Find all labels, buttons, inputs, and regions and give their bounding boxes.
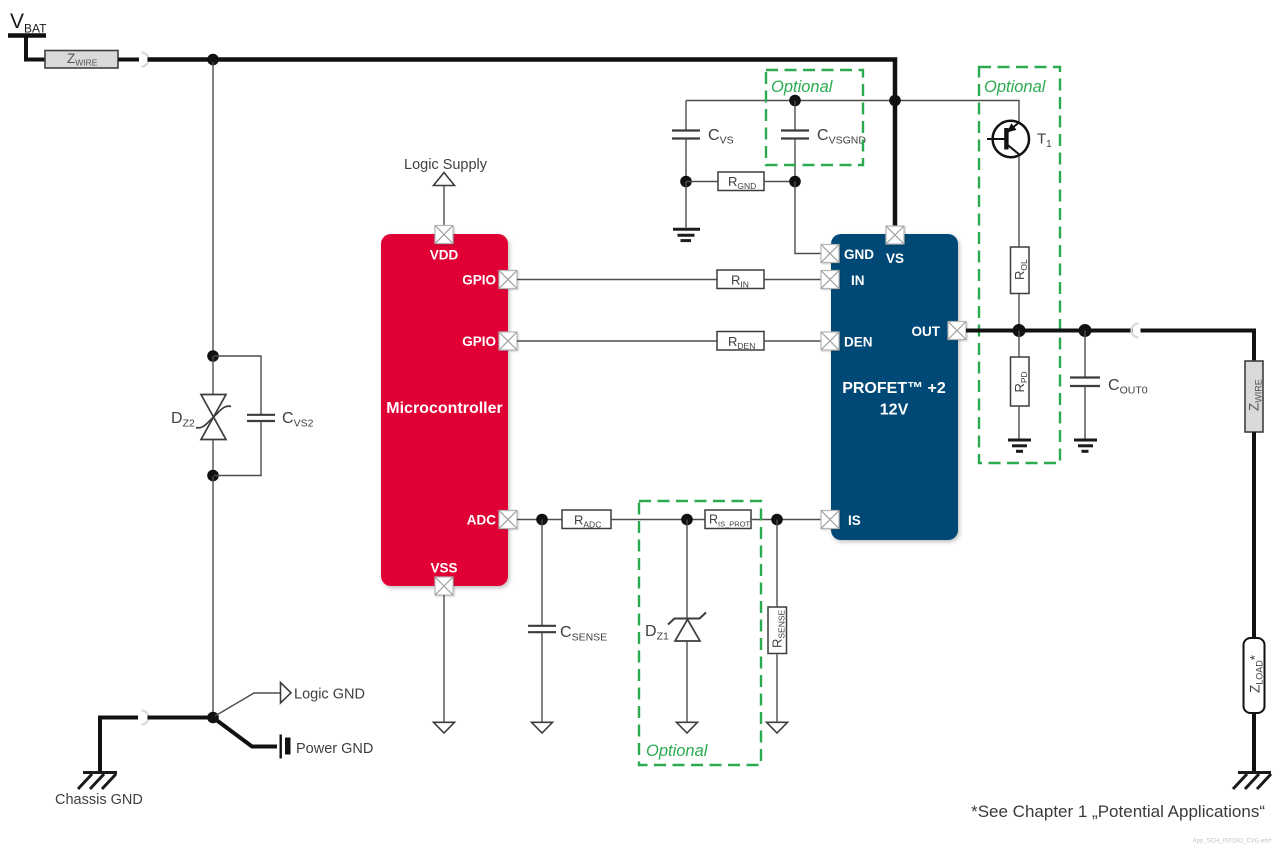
resistor RGND (718, 172, 764, 191)
wire RIS_PROT to IS pin (751, 519, 821, 521)
svg-text:Power GND: Power GND (296, 741, 373, 757)
wire ZWIRE to connector break (118, 58, 139, 62)
wire ZLOAD to chassis ground (1252, 713, 1256, 773)
earth ground COUT0 (1074, 440, 1097, 451)
wire logic supply to VDD (443, 186, 445, 228)
resistor RDEN (717, 332, 764, 352)
wire break to ground junction (148, 716, 211, 720)
wire junction to RSENSE (776, 520, 778, 608)
wire T1 collector to ROL (1018, 156, 1020, 247)
wire VBAT to ZWIRE (26, 36, 46, 60)
junction supply rail / DZ2 branch (207, 54, 219, 66)
svg-text:12V: 12V (880, 402, 909, 419)
resistor RPD (1011, 357, 1030, 406)
pin ADC (499, 511, 517, 529)
wire junction to CSENSE (541, 520, 543, 626)
pin OUT (948, 322, 966, 340)
wire junction to DZ1 (686, 520, 688, 619)
wire CVS to junction (685, 139, 687, 183)
capacitor CSENSE (528, 626, 556, 632)
svg-text:ADC: ADC (467, 513, 496, 528)
wire ROL to OUT rail (1018, 294, 1020, 331)
connector break (top-left) (142, 53, 149, 67)
wire RIN to IN pin (764, 279, 821, 281)
resistor RADC (562, 510, 611, 530)
svg-text:Optional: Optional (771, 78, 834, 96)
chassis ground symbol (left) (78, 773, 117, 790)
junction ADC/CSENSE (536, 514, 548, 526)
junction DZ2 top (207, 350, 219, 362)
wire COUT0 to earth ground (1084, 386, 1086, 439)
wire CVS2 bottom return (214, 421, 261, 476)
svg-text:GPIO: GPIO (462, 273, 496, 288)
wire to DZ2 (212, 356, 214, 395)
resistor ZWIRE (battery harness impedance) (45, 51, 118, 69)
PROFET chip body (831, 234, 958, 540)
wire CVS junction to earth ground (685, 182, 687, 228)
junction CVSGND top (789, 95, 801, 107)
pin DEN (821, 332, 839, 350)
svg-text:*See Chapter 1 „Potential Appl: *See Chapter 1 „Potential Applications“ (971, 802, 1265, 821)
wire GPIO2 to RDEN (517, 340, 717, 342)
wire CSENSE to ground arrow (541, 632, 543, 722)
microcontroller U1 body (381, 234, 508, 586)
wire to GND pin (795, 182, 821, 254)
svg-text:Logic GND: Logic GND (294, 687, 365, 703)
logic ground symbol (281, 683, 292, 704)
pin VS (886, 226, 904, 244)
wire RGND to CVSGND junction (764, 181, 795, 183)
capacitor CVS2 (247, 415, 275, 421)
svg-text:Optional: Optional (984, 78, 1047, 96)
svg-text:VSS: VSS (430, 561, 457, 576)
pin GPIO2 (499, 332, 517, 350)
zener diode DZ1 (668, 613, 706, 642)
junction CVS/RGND (680, 176, 692, 188)
capacitor CVSGND (781, 131, 809, 139)
svg-text:Logic Supply: Logic Supply (404, 157, 488, 173)
junction COUT0 on OUT (1079, 324, 1092, 337)
wire DZ2 bottom to GND junction (212, 476, 214, 714)
wire break to ZWIRE right (1141, 331, 1255, 363)
junction ground node (207, 712, 219, 724)
wire CVS top (685, 101, 687, 131)
svg-text:DEN: DEN (844, 335, 873, 350)
wire junction down to DZ2 (212, 62, 214, 356)
wire RPD from OUT (1018, 331, 1020, 358)
wire GPIO1 to RIN (517, 279, 717, 281)
resistor RSENSE (768, 607, 787, 654)
TVS diode DZ2 (196, 395, 231, 440)
svg-text:App_SCH_INTDIO_CVG.emf: App_SCH_INTDIO_CVG.emf (1193, 839, 1272, 845)
junction VS rail crossing (889, 95, 901, 107)
wire RPD to earth ground (1018, 406, 1020, 439)
svg-text:PROFET™ +2: PROFET™ +2 (842, 380, 946, 397)
wire main supply rail to VS (148, 60, 896, 229)
wire ZWIRE to ZLOAD (1252, 432, 1256, 640)
pin VSS (435, 577, 453, 595)
transistor T1 (987, 121, 1029, 157)
resistor RIS_PROT (705, 510, 751, 529)
junction DZ2 bottom (207, 470, 219, 482)
wire VSS to ground arrow (443, 595, 445, 722)
junction CVSGND/RGND (789, 176, 801, 188)
capacitor COUT0 (1070, 378, 1100, 387)
load ZLOAD (1244, 638, 1265, 713)
capacitor CVS (672, 131, 700, 139)
wire RSENSE to ground arrow (776, 654, 778, 723)
VBAT supply bar (8, 33, 46, 38)
svg-text:GPIO: GPIO (462, 334, 496, 349)
wire ADC to junction (517, 519, 562, 521)
junction ROL/RPD on OUT (1013, 324, 1026, 337)
ground arrow CSENSE (532, 722, 553, 733)
connector break (OUT) (1132, 324, 1139, 338)
wire to Power GND (213, 718, 277, 747)
svg-text:IN: IN (851, 273, 865, 288)
pin IN (821, 271, 839, 289)
svg-text:VS: VS (886, 251, 904, 266)
pin GND (821, 245, 839, 263)
optional dashed box DZ1 (639, 501, 761, 765)
junction RSENSE (771, 514, 783, 526)
chassis ground symbol (right) (1233, 773, 1271, 790)
resistor ROL (1011, 247, 1030, 294)
power ground symbol (280, 735, 291, 759)
wire CVSGND top (794, 101, 796, 131)
earth ground RPD (1008, 440, 1031, 451)
optional dashed box CVSGND (766, 70, 863, 165)
wire to Logic GND (215, 693, 280, 716)
wire top rail to CVS corner (686, 101, 1019, 123)
wire CVS2 parallel branch (214, 356, 261, 414)
ground arrow DZ1 (677, 722, 698, 733)
wire COUT0 from OUT (1084, 331, 1086, 377)
resistor ZWIRE right (1245, 361, 1264, 432)
wire CVS junction to RGND (686, 181, 718, 183)
wire RDEN to DEN pin (764, 340, 821, 342)
wire DZ1 to ground arrow (686, 641, 688, 722)
junction DZ1 (681, 514, 693, 526)
wire RADC to DZ1 junction (611, 519, 705, 521)
svg-text:OUT: OUT (912, 324, 941, 339)
ground arrow VSS (434, 722, 455, 733)
svg-text:Chassis GND: Chassis GND (55, 792, 143, 808)
wire OUT pin to break (966, 329, 1133, 333)
pin IS (821, 511, 839, 529)
svg-text:GND: GND (844, 247, 874, 262)
svg-text:IS: IS (848, 513, 861, 528)
wire CVSGND to junction (794, 139, 796, 183)
earth ground CVS (673, 229, 700, 240)
wire chassis to break (100, 718, 138, 775)
svg-text:VDD: VDD (430, 248, 459, 263)
ground arrow RSENSE (767, 722, 788, 733)
wire DZ2 to bottom junction (212, 440, 214, 477)
logic supply symbol (434, 173, 455, 186)
pin VDD (435, 226, 453, 244)
svg-text:Microcontroller: Microcontroller (386, 400, 502, 417)
resistor RIN (717, 270, 764, 290)
svg-text:Optional: Optional (646, 742, 709, 760)
pin GPIO1 (499, 271, 517, 289)
optional dashed box T1 (979, 67, 1060, 463)
connector break (bottom-left) (142, 711, 149, 725)
